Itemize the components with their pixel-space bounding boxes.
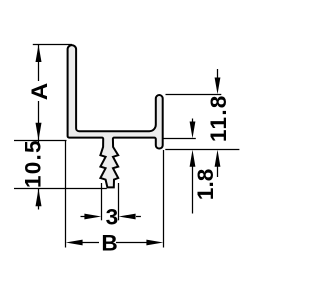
extrusion profile cross-section with barbed stem: [68, 45, 163, 187]
extension line at profile bottom (left): [14, 140, 67, 142]
dimension 3: right extension line: [118, 183, 120, 220]
dimension 11.8: top extension line (right wall top): [166, 94, 222, 96]
svg-text:10.5: 10.5: [20, 139, 45, 188]
dimension A: arrow up: [36, 45, 42, 62]
dimension 10.5: arrow up below tip line: [36, 189, 42, 206]
svg-text:1.8: 1.8: [193, 169, 218, 200]
dimension 1.8: arrow down above base line: [192, 119, 194, 124]
dimension 11.8: arrow down above top line: [217, 69, 219, 79]
extension line at base bottom (right): [164, 138, 196, 140]
dimension A: vertical dimension line: [38, 45, 40, 82]
dimension B: left extension line: [65, 141, 67, 248]
dimension B: line and arrows: [82, 242, 99, 244]
dimension 1.8: arrow up below nub line: [192, 164, 194, 214]
dimension 11.8: arrow up below bottom line: [217, 166, 219, 177]
extension line at nub bottom (right): [165, 149, 239, 151]
dimension 3: left arrow pointing right: [81, 216, 87, 218]
svg-text:3: 3: [106, 204, 119, 229]
svg-text:B: B: [101, 230, 117, 255]
svg-text:A: A: [27, 83, 52, 101]
dimension 3: right arrow pointing left: [136, 216, 141, 218]
dimension 3: left extension line: [101, 183, 103, 220]
dimension A / 10.5: arrow down: [36, 123, 42, 141]
extension line at stem tip (left): [14, 188, 107, 190]
dimension B: right extension line: [163, 150, 165, 248]
svg-text:11.8: 11.8: [206, 94, 231, 142]
dimension A: top extension line: [33, 44, 72, 46]
